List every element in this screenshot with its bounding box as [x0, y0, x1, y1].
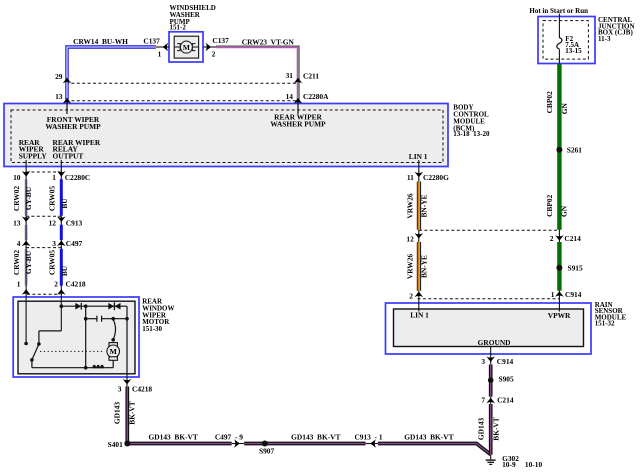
svg-text:2: 2 — [54, 280, 58, 289]
svg-text:1: 1 — [158, 50, 162, 59]
svg-text:C2280G: C2280G — [423, 173, 449, 182]
svg-text:11: 11 — [407, 173, 414, 182]
svg-text:S261: S261 — [567, 145, 583, 154]
svg-text:2: 2 — [409, 292, 413, 301]
svg-text:C214: C214 — [497, 395, 514, 404]
svg-text:VRW26: VRW26 — [405, 254, 414, 280]
svg-text:GD143 BK-VT: GD143 BK-VT — [149, 433, 198, 442]
svg-text:GN: GN — [560, 205, 569, 217]
svg-text:CRW23 VT-GN: CRW23 VT-GN — [242, 38, 295, 47]
svg-text:3: 3 — [481, 357, 485, 366]
svg-text:M: M — [183, 43, 190, 52]
svg-text:GN: GN — [560, 102, 569, 114]
svg-text:BN-YE: BN-YE — [419, 255, 428, 278]
svg-text:VRW26: VRW26 — [405, 193, 414, 219]
svg-text:C4218: C4218 — [132, 385, 152, 394]
svg-text:CRW05: CRW05 — [48, 250, 57, 276]
svg-text:CBP02: CBP02 — [545, 91, 554, 113]
svg-text:13: 13 — [13, 218, 21, 227]
svg-text:1: 1 — [17, 280, 21, 289]
svg-text:VPWR: VPWR — [548, 311, 571, 320]
svg-text:3: 3 — [118, 385, 122, 394]
svg-text:GD143: GD143 — [477, 418, 486, 440]
svg-text:BK-VT: BK-VT — [128, 401, 137, 424]
svg-text:C913: C913 — [66, 218, 83, 227]
svg-text:WASHER PUMP: WASHER PUMP — [45, 122, 101, 131]
svg-text:BN-YE: BN-YE — [419, 194, 428, 217]
svg-text:C4218: C4218 — [66, 280, 86, 289]
svg-text:GY-BU: GY-BU — [24, 186, 33, 210]
svg-text:S401: S401 — [108, 440, 124, 449]
svg-text:7: 7 — [481, 395, 485, 404]
svg-text:LIN 1: LIN 1 — [410, 311, 429, 320]
svg-text:GD143 BK-VT: GD143 BK-VT — [291, 433, 340, 442]
svg-text:13: 13 — [55, 92, 63, 101]
svg-text:WASHER PUMP: WASHER PUMP — [270, 120, 326, 129]
svg-text:151-2: 151-2 — [170, 24, 187, 32]
svg-text:11-3: 11-3 — [598, 35, 611, 43]
svg-text:S915: S915 — [568, 263, 584, 272]
svg-text:2: 2 — [550, 234, 554, 243]
svg-text:GROUND: GROUND — [478, 338, 511, 347]
svg-text:2: 2 — [212, 50, 216, 59]
svg-text:Hot in Start or Run: Hot in Start or Run — [529, 7, 588, 15]
svg-text:S905: S905 — [499, 374, 515, 383]
svg-text:SUPPLY: SUPPLY — [19, 152, 48, 161]
svg-text:1: 1 — [551, 290, 555, 299]
svg-text:151-30: 151-30 — [142, 325, 162, 333]
svg-text:151-32: 151-32 — [595, 319, 615, 327]
svg-text:BK-VT: BK-VT — [491, 417, 500, 440]
svg-text:10-9: 10-9 — [502, 460, 516, 469]
svg-text:10: 10 — [13, 173, 21, 182]
svg-text:3: 3 — [52, 239, 56, 248]
svg-text:12: 12 — [49, 218, 57, 227]
svg-text:4: 4 — [17, 239, 21, 248]
svg-text:1: 1 — [52, 173, 56, 182]
svg-text:C497: C497 — [66, 239, 83, 248]
svg-text:C913 - 1: C913 - 1 — [354, 433, 382, 442]
svg-text:C2280C: C2280C — [65, 173, 90, 182]
svg-text:LIN 1: LIN 1 — [409, 152, 428, 161]
svg-text:CRW02: CRW02 — [12, 186, 21, 212]
svg-text:BU: BU — [60, 198, 69, 209]
svg-text:C497 - 9: C497 - 9 — [215, 433, 243, 442]
svg-text:GY-BU: GY-BU — [24, 250, 33, 274]
svg-text:13-15: 13-15 — [565, 47, 582, 55]
svg-text:BU: BU — [60, 265, 69, 276]
svg-text:C137: C137 — [212, 36, 229, 45]
svg-text:CRW14 BU-WH: CRW14 BU-WH — [73, 37, 128, 46]
svg-text:31: 31 — [286, 71, 294, 80]
svg-text:C214: C214 — [564, 234, 581, 243]
svg-text:GD143: GD143 — [113, 402, 122, 424]
svg-text:C914: C914 — [565, 290, 582, 299]
svg-text:13-18 13-20: 13-18 13-20 — [453, 130, 490, 138]
svg-text:M: M — [110, 347, 118, 356]
svg-text:29: 29 — [55, 72, 63, 81]
svg-text:C137: C137 — [143, 36, 160, 45]
svg-text:12: 12 — [406, 234, 414, 243]
svg-text:CBP02: CBP02 — [545, 194, 554, 216]
svg-text:14: 14 — [286, 92, 294, 101]
svg-text:C914: C914 — [497, 357, 514, 366]
svg-text:CRW02: CRW02 — [12, 250, 21, 276]
svg-text:C211: C211 — [303, 71, 319, 80]
svg-text:S907: S907 — [259, 447, 275, 456]
svg-text:CRW05: CRW05 — [48, 186, 57, 212]
svg-text:10-10: 10-10 — [525, 460, 543, 469]
svg-text:OUTPUT: OUTPUT — [53, 152, 84, 161]
svg-text:GD143 BK-VT: GD143 BK-VT — [404, 433, 453, 442]
svg-text:C2280A: C2280A — [303, 92, 329, 101]
